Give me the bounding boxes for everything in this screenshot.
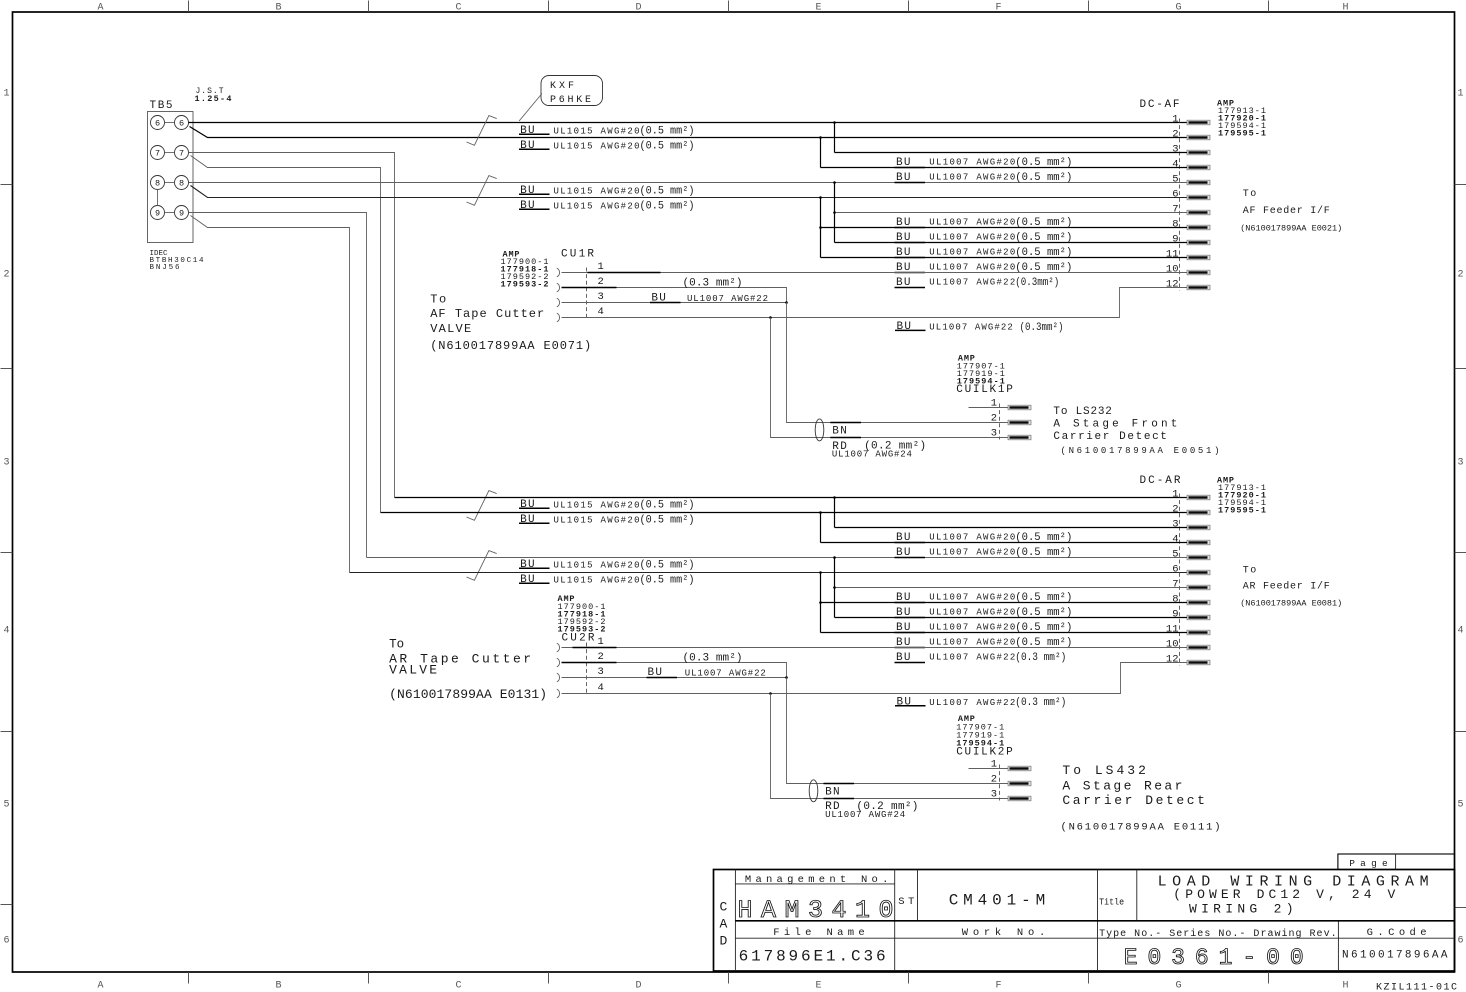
svg-text:(0.5 mm²): (0.5 mm²) <box>1015 532 1072 544</box>
junction vertical 820 DC-AR pins6-8-11 <box>820 573 822 633</box>
junction vertical 834 pins5-7-9 <box>834 183 836 243</box>
title block outline <box>714 870 1455 972</box>
svg-text:CU1R: CU1R <box>561 249 594 261</box>
svg-text:UL1007 AWG#22: UL1007 AWG#22 <box>929 278 1015 288</box>
svg-text:DC-AR: DC-AR <box>1140 475 1181 487</box>
Page box <box>1338 854 1455 870</box>
title block Management No. header underline <box>735 883 894 885</box>
svg-text:(0.5 mm²): (0.5 mm²) <box>640 515 695 527</box>
twisted pair ellipse <box>815 419 824 441</box>
svg-text:BNJ56: BNJ56 <box>150 264 180 272</box>
svg-text:G.Code: G.Code <box>1367 927 1427 939</box>
wire CU2R pin2 (0.3mm2) to junction <box>562 663 787 678</box>
svg-text:UL1007 AWG#20: UL1007 AWG#20 <box>929 623 1015 633</box>
svg-text:N610017896AA: N610017896AA <box>1342 949 1448 961</box>
svg-text:(0.3 mm²): (0.3 mm²) <box>683 278 743 290</box>
svg-text:UL1015 AWG#20: UL1015 AWG#20 <box>554 560 640 570</box>
wire left drop to DC-AR pin5 <box>367 557 1188 559</box>
svg-text:2: 2 <box>1172 129 1178 141</box>
cable twist symbol pair 4 <box>467 551 497 581</box>
connector CU1R pin 3 contact arc <box>557 298 560 307</box>
svg-text:7: 7 <box>155 149 160 159</box>
svg-text:Work No.: Work No. <box>962 927 1046 939</box>
svg-text:1: 1 <box>598 636 604 648</box>
connector CU1R dashed housing line <box>586 268 588 320</box>
svg-text:2: 2 <box>4 270 10 281</box>
svg-text:BN: BN <box>825 786 840 798</box>
svg-text:3: 3 <box>991 428 997 440</box>
svg-text:AR Feeder I/F: AR Feeder I/F <box>1243 581 1330 593</box>
TB5 terminal 8 pair link wire <box>165 182 175 184</box>
svg-text:(0.5 mm²): (0.5 mm²) <box>640 141 695 153</box>
TB5 terminal 7 right circle <box>175 146 189 160</box>
svg-text:WIRING 2): WIRING 2) <box>1189 901 1294 916</box>
svg-text:UL1015 AWG#20: UL1015 AWG#20 <box>554 515 640 525</box>
junction dot CU2R pin3 <box>785 676 788 679</box>
svg-text:2: 2 <box>991 413 997 425</box>
svg-text:UL1007 AWG#22: UL1007 AWG#22 <box>929 653 1015 663</box>
svg-text:BU: BU <box>520 185 535 197</box>
connector DC-AF pin 10 crimp terminal <box>1187 270 1210 275</box>
svg-text:BU: BU <box>520 559 535 571</box>
connector DC-AR pin 5 crimp terminal <box>1187 555 1210 560</box>
wire CU1R pin4 to DC-AF pin12 <box>562 288 1188 318</box>
svg-text:12: 12 <box>1166 279 1179 291</box>
svg-text:7: 7 <box>1172 579 1178 591</box>
svg-text:CUILK2P: CUILK2P <box>956 746 1013 758</box>
wire left drop to DC-AR pin6 <box>350 572 1188 574</box>
wire to DC-AF pin11 <box>821 257 1188 259</box>
svg-text:BU: BU <box>520 125 535 137</box>
svg-text:UL1007 AWG#20: UL1007 AWG#20 <box>929 593 1015 603</box>
junction vertical 834 pins1-3 <box>834 123 836 153</box>
svg-text:1: 1 <box>1172 114 1178 126</box>
TB5 link wire between terminals 8 and 9 <box>157 190 159 206</box>
svg-text:7: 7 <box>1172 204 1178 216</box>
connector DC-AF pin 2 crimp terminal <box>1187 135 1210 140</box>
svg-text:(0.5 mm²): (0.5 mm²) <box>640 201 695 213</box>
TB5 terminal 6 right circle <box>175 116 189 130</box>
svg-text:UL1007 AWG#22: UL1007 AWG#22 <box>929 698 1015 708</box>
svg-text:A: A <box>720 917 728 932</box>
svg-text:3: 3 <box>1172 519 1178 531</box>
wire CU2R pin1 ident segment <box>573 647 617 649</box>
wire TB5-8 branch to DC-AF pin6 (BU UL1015) <box>191 186 1188 198</box>
svg-text:To: To <box>430 293 446 307</box>
svg-text:5: 5 <box>1172 549 1178 561</box>
svg-text:Carrier Detect: Carrier Detect <box>1053 431 1167 443</box>
svg-text:(0.5 mm²): (0.5 mm²) <box>1015 217 1072 229</box>
wire TB5-7 branch to DC-AR pin2 via left drop <box>191 156 381 513</box>
svg-text:UL1015 AWG#20: UL1015 AWG#20 <box>554 186 640 196</box>
svg-text:1: 1 <box>991 759 997 771</box>
svg-text:2: 2 <box>991 774 997 786</box>
connector CUILK1P pin 3 crimp terminal <box>1008 435 1031 440</box>
junction vertical 820 pins6-8-11 <box>820 198 822 258</box>
wire CU2R pin3 BU UL1007 AWG#22 <box>562 677 787 679</box>
svg-text:UL1007 AWG#20: UL1007 AWG#20 <box>929 608 1015 618</box>
terminal block TB5 outline <box>148 112 194 243</box>
wire CU1R pin1 to DC-AF pin10 <box>562 272 1188 274</box>
connector DC-AR pin 3 crimp terminal <box>1187 525 1210 530</box>
svg-text:4: 4 <box>1172 534 1178 546</box>
TB5 terminal 9 left circle <box>151 206 165 220</box>
connector CU2R pin 3 contact arc <box>557 673 560 682</box>
svg-text:10: 10 <box>1166 264 1179 276</box>
connector DC-AF pin 12 crimp terminal <box>1187 285 1210 290</box>
connector CUILK2P dashed housing line <box>999 765 1001 801</box>
connector DC-AR pin 8 crimp terminal <box>1187 600 1210 605</box>
svg-text:3: 3 <box>1458 458 1464 469</box>
svg-text:F: F <box>995 981 1001 992</box>
svg-text:3: 3 <box>4 458 10 469</box>
svg-text:6: 6 <box>1458 936 1464 947</box>
twisted pair ellipse lower <box>809 780 818 802</box>
cable tag KXF P6HKE <box>541 76 603 106</box>
TB5 terminal 8 right circle <box>175 176 189 190</box>
svg-text:(0.5 mm²): (0.5 mm²) <box>640 126 695 138</box>
connector DC-AF pin 9 crimp terminal <box>1187 240 1210 245</box>
wire CU1R pin2 ident segment <box>562 287 617 289</box>
svg-text:1: 1 <box>1172 489 1178 501</box>
connector DC-AR pin 12 crimp terminal <box>1187 660 1210 665</box>
connector DC-AR pin 2 crimp terminal <box>1187 510 1210 515</box>
wire CU2R pin2 ident segment <box>562 662 617 664</box>
svg-text:(0.5 mm²): (0.5 mm²) <box>1015 247 1072 259</box>
connector CUILK2P pin 2 crimp terminal <box>1008 781 1031 786</box>
svg-text:3: 3 <box>1172 144 1178 156</box>
TB5 terminal 7 pair link wire <box>165 152 175 154</box>
connector DC-AR pin 6 crimp terminal <box>1187 570 1210 575</box>
svg-text:7: 7 <box>179 149 184 159</box>
svg-text:(0.5 mm²): (0.5 mm²) <box>1015 172 1072 184</box>
svg-text:(0.3 mm²): (0.3 mm²) <box>1015 652 1066 664</box>
wire stub CUILK2P pin1 <box>969 768 1009 770</box>
svg-text:UL1015 AWG#20: UL1015 AWG#20 <box>554 141 640 151</box>
cable twist symbol pair 3 <box>467 491 497 521</box>
connector CU2R dashed housing line <box>586 643 588 695</box>
connector CU2R pin 1 contact arc <box>557 643 560 652</box>
title block vertical divider 894 <box>894 870 896 972</box>
svg-text:BU: BU <box>520 200 535 212</box>
svg-text:H: H <box>1342 3 1348 14</box>
svg-text:(0.5 mm²): (0.5 mm²) <box>1015 547 1072 559</box>
junction vertical 834 DC-AR pins5-7-9 <box>834 558 836 618</box>
svg-text:1.25-4: 1.25-4 <box>195 94 232 104</box>
wire CU1R pin3 BU UL1007 AWG#22 <box>562 302 787 304</box>
svg-text:D: D <box>635 981 641 992</box>
svg-text:E: E <box>815 3 821 14</box>
svg-text:(0.3 mm²): (0.3 mm²) <box>1015 697 1066 709</box>
wire to DC-AR pin7 <box>835 587 1188 589</box>
svg-text:UL1015 AWG#20: UL1015 AWG#20 <box>554 575 640 585</box>
title block Title label divider <box>1136 870 1138 921</box>
connector DC-AR pin 7 crimp terminal <box>1187 585 1210 590</box>
wire to DC-AR pin4 <box>821 542 1188 544</box>
connector DC-AF pin 1 crimp terminal <box>1187 120 1210 125</box>
wire to DC-AR pin9 <box>835 617 1188 619</box>
svg-text:(0.3 mm²): (0.3 mm²) <box>683 653 743 665</box>
connector DC-AF pin 5 crimp terminal <box>1187 180 1210 185</box>
svg-text:F: F <box>995 3 1001 14</box>
connector DC-AF pin 3 crimp terminal <box>1187 150 1210 155</box>
svg-text:12: 12 <box>1166 654 1179 666</box>
svg-text:(0.5 mm²): (0.5 mm²) <box>1015 232 1072 244</box>
svg-text:(0.3mm²): (0.3mm²) <box>1020 322 1064 334</box>
title block G.Code divider <box>1337 921 1339 971</box>
svg-text:UL1015 AWG#20: UL1015 AWG#20 <box>554 500 640 510</box>
svg-text:(0.5 mm²): (0.5 mm²) <box>1015 592 1072 604</box>
connector DC-AF pin 7 crimp terminal <box>1187 210 1210 215</box>
svg-text:(0.5 mm²): (0.5 mm²) <box>640 560 695 572</box>
svg-text:A Stage Rear: A Stage Rear <box>1062 779 1182 794</box>
svg-text:C: C <box>720 900 728 915</box>
svg-text:UL1007 AWG#20: UL1007 AWG#20 <box>929 158 1015 168</box>
svg-text:3: 3 <box>598 291 604 303</box>
svg-text:UL1007 AWG#20: UL1007 AWG#20 <box>929 248 1015 258</box>
svg-text:(N610017899AA E0051): (N610017899AA E0051) <box>1061 446 1220 456</box>
connector CU1R pin 1 contact arc <box>557 268 560 277</box>
junction dots DC-AF area <box>833 121 836 124</box>
svg-text:4: 4 <box>1458 626 1464 637</box>
svg-text:UL1007 AWG#20: UL1007 AWG#20 <box>929 263 1015 273</box>
svg-text:1: 1 <box>991 398 997 410</box>
svg-text:ST: ST <box>898 896 914 908</box>
svg-text:(0.5 mm²): (0.5 mm²) <box>640 500 695 512</box>
Page box divider <box>1395 854 1397 870</box>
wire CU1R pin4 drop to RD <box>771 318 1009 438</box>
connector DC-AR pin 4 crimp terminal <box>1187 540 1210 545</box>
connector DC-AR pin 11 crimp terminal <box>1187 630 1210 635</box>
svg-text:Carrier Detect: Carrier Detect <box>1062 793 1205 808</box>
svg-text:(N610017899AA E0081): (N610017899AA E0081) <box>1240 599 1342 609</box>
svg-text:A: A <box>97 3 103 14</box>
svg-text:9: 9 <box>1172 234 1178 246</box>
wire to DC-AR pin3 <box>835 527 1188 529</box>
wire TB5-9 branch to DC-AR pin6 via left drop <box>191 216 350 573</box>
svg-text:UL1007 AWG#24: UL1007 AWG#24 <box>825 810 905 820</box>
svg-text:TB5: TB5 <box>150 100 173 112</box>
wire TB5-6 branch to DC-AF pin2 (BU UL1015) <box>190 127 1188 138</box>
svg-text:BU: BU <box>520 499 535 511</box>
svg-text:9: 9 <box>179 209 184 219</box>
svg-text:11: 11 <box>1166 249 1179 261</box>
connector CUILK2P pin 1 crimp terminal <box>1008 766 1031 771</box>
cable twist symbol pair 1 <box>467 116 497 146</box>
svg-text:2: 2 <box>1172 504 1178 516</box>
TB5 terminal 9 right circle <box>175 206 189 220</box>
wire left drop to DC-AR pin1 <box>395 497 1188 499</box>
svg-text:6: 6 <box>179 119 184 129</box>
svg-text:(0.5 mm²): (0.5 mm²) <box>1015 157 1072 169</box>
svg-text:(0.5 mm²): (0.5 mm²) <box>1015 262 1072 274</box>
wire TB5-8 to DC-AF pin5 (BU UL1015) <box>189 182 1188 184</box>
wire CU1R pin1 ident segment <box>588 272 661 274</box>
title block row divider 2 <box>735 937 1454 939</box>
svg-text:4: 4 <box>1172 159 1178 171</box>
wire to DC-AF pin3 <box>835 152 1188 154</box>
svg-text:9: 9 <box>1172 609 1178 621</box>
svg-text:(0.5 mm²): (0.5 mm²) <box>1015 637 1072 649</box>
wire CU1R pin2 (0.3mm2) to junction <box>562 288 787 303</box>
wire to DC-AR pin11 <box>821 632 1188 634</box>
title block row divider 1 <box>735 920 1454 922</box>
connector DC-AR pin 10 crimp terminal <box>1187 645 1210 650</box>
svg-text:6: 6 <box>1172 189 1178 201</box>
junction dot CU2R pin4 <box>769 692 772 695</box>
TB5 terminal 7 left circle <box>151 146 165 160</box>
svg-text:BU: BU <box>897 696 912 708</box>
svg-text:UL1007 AWG#20: UL1007 AWG#20 <box>929 173 1015 183</box>
svg-text:D: D <box>635 3 641 14</box>
svg-text:BU: BU <box>520 140 535 152</box>
svg-text:179593-2: 179593-2 <box>501 280 549 290</box>
svg-text:VALVE: VALVE <box>389 662 437 677</box>
svg-text:G: G <box>1175 981 1181 992</box>
svg-text:6: 6 <box>1172 564 1178 576</box>
svg-text:2: 2 <box>598 276 604 288</box>
connector DC-AR pin 1 crimp terminal <box>1187 495 1210 500</box>
svg-text:File Name: File Name <box>773 927 865 939</box>
svg-text:5: 5 <box>1172 174 1178 186</box>
connector CU1R pin 2 contact arc <box>557 283 560 292</box>
wire CU2R pin3 drop to BN <box>787 678 1009 784</box>
svg-text:617896E1.C36: 617896E1.C36 <box>739 947 886 965</box>
wire TB5-7 to DC-AR pin1 via left drop <box>189 153 395 498</box>
svg-text:8: 8 <box>1172 594 1178 606</box>
svg-text:To: To <box>1243 566 1257 577</box>
svg-text:UL1007 AWG#24: UL1007 AWG#24 <box>832 449 912 459</box>
connector CU2R pin 4 contact arc <box>557 689 560 698</box>
frame column ticks top <box>188 1 190 13</box>
svg-text:C: C <box>455 3 461 14</box>
wire stub CUILK1P pin1 <box>969 407 1009 409</box>
junction vertical 820 DC-AR pins2-4 <box>820 513 822 543</box>
wire CU2R pin4 to DC-AR pin12 <box>562 663 1188 694</box>
svg-text:UL1007 AWG#22: UL1007 AWG#22 <box>687 294 768 304</box>
svg-text:To: To <box>1243 189 1257 200</box>
frame row ticks left <box>1 184 13 186</box>
svg-text:UL1015 AWG#20: UL1015 AWG#20 <box>554 201 640 211</box>
connector CUILK1P pin 2 crimp terminal <box>1008 420 1031 425</box>
TB5 terminal 8 left circle <box>151 176 165 190</box>
svg-text:B: B <box>275 3 281 14</box>
wire left drop to DC-AR pin2 <box>381 512 1188 514</box>
connector DC-AF pin 8 crimp terminal <box>1187 225 1210 230</box>
svg-text:DC-AF: DC-AF <box>1140 99 1180 111</box>
svg-text:E0361-00: E0361-00 <box>1124 945 1304 971</box>
connector DC-AF pin 4 crimp terminal <box>1187 165 1210 170</box>
connector CU2R pin 2 contact arc <box>557 658 560 667</box>
svg-text:179595-1: 179595-1 <box>1218 506 1266 516</box>
svg-text:3: 3 <box>991 789 997 801</box>
svg-text:D: D <box>720 934 728 949</box>
junction dot CU1R pin4 <box>769 316 772 319</box>
svg-text:E: E <box>815 981 821 992</box>
svg-text:To LS432: To LS432 <box>1062 763 1146 778</box>
svg-text:Page: Page <box>1349 858 1388 869</box>
svg-text:UL1007 AWG#20: UL1007 AWG#20 <box>929 638 1015 648</box>
connector DC-AR pin 9 crimp terminal <box>1187 615 1210 620</box>
svg-text:BU: BU <box>520 574 535 586</box>
svg-text:A Stage Front: A Stage Front <box>1053 419 1177 431</box>
svg-text:C: C <box>455 981 461 992</box>
svg-text:1: 1 <box>598 261 604 273</box>
svg-text:3: 3 <box>598 666 604 678</box>
svg-text:UL1007 AWG#20: UL1007 AWG#20 <box>929 233 1015 243</box>
title block CAD column divider <box>734 870 736 972</box>
svg-text:1: 1 <box>1458 89 1464 100</box>
svg-text:2: 2 <box>1458 270 1464 281</box>
svg-text:8: 8 <box>179 179 184 189</box>
svg-text:4: 4 <box>598 682 604 694</box>
wire to DC-AF pin4 <box>821 167 1188 169</box>
svg-text:(0.5 mm²): (0.5 mm²) <box>640 575 695 587</box>
svg-text:UL1007 AWG#22: UL1007 AWG#22 <box>929 323 1019 333</box>
svg-text:6: 6 <box>155 119 160 129</box>
TB5 terminal 6 pair link wire <box>165 122 175 124</box>
svg-text:(N610017899AA E0131): (N610017899AA E0131) <box>389 687 547 702</box>
TB5 terminal 9 pair link wire <box>165 212 175 214</box>
svg-text:G: G <box>1175 3 1181 14</box>
junction vertical 820 pins2-4 <box>820 138 822 168</box>
svg-text:(0.5 mm²): (0.5 mm²) <box>640 186 695 198</box>
svg-text:6: 6 <box>4 936 10 947</box>
svg-text:(0.5 mm²): (0.5 mm²) <box>1015 607 1072 619</box>
svg-text:9: 9 <box>155 209 160 219</box>
svg-text:BN: BN <box>832 426 847 438</box>
svg-text:(N610017899AA E0111): (N610017899AA E0111) <box>1061 822 1221 834</box>
wire TB5-9 to DC-AR pin5 via left drop <box>189 213 367 558</box>
svg-text:B: B <box>275 981 281 992</box>
svg-text:BU: BU <box>897 321 912 333</box>
svg-text:11: 11 <box>1166 624 1179 636</box>
svg-text:AF Feeder I/F: AF Feeder I/F <box>1243 205 1330 217</box>
svg-text:UL1007 AWG#20: UL1007 AWG#20 <box>929 548 1015 558</box>
svg-text:(0.3mm²): (0.3mm²) <box>1015 277 1059 289</box>
svg-text:8: 8 <box>1172 219 1178 231</box>
frame column ticks bottom <box>188 972 190 984</box>
svg-text:AF Tape Cutter: AF Tape Cutter <box>430 307 544 321</box>
title block vertical divider 1097 <box>1097 870 1099 972</box>
wire to DC-AR pin8 <box>821 602 1188 604</box>
svg-text:4: 4 <box>598 306 604 318</box>
svg-text:1: 1 <box>4 89 10 100</box>
svg-text:(N610017899AA E0021): (N610017899AA E0021) <box>1240 224 1342 234</box>
svg-text:UL1007 AWG#20: UL1007 AWG#20 <box>929 218 1015 228</box>
svg-text:(0.5 mm²): (0.5 mm²) <box>1015 622 1072 634</box>
wire CU2R pin4 drop to RD <box>771 694 1009 799</box>
svg-text:To LS232: To LS232 <box>1053 406 1112 418</box>
svg-text:Type No.- Series No.- Drawing: Type No.- Series No.- Drawing Rev. <box>1099 928 1337 940</box>
wire CU2R pin1 to DC-AR pin10 <box>562 647 1188 649</box>
connector DC-AF pin 6 crimp terminal <box>1187 195 1210 200</box>
svg-text:VALVE: VALVE <box>430 322 471 336</box>
junction dots DC-AR area <box>833 496 836 499</box>
connector DC-AR dashed housing line <box>1179 494 1181 666</box>
wire to DC-AF pin8 <box>821 227 1188 229</box>
svg-text:P6HKE: P6HKE <box>550 95 591 106</box>
svg-text:To: To <box>389 637 404 652</box>
svg-text:BU: BU <box>520 514 535 526</box>
frame row ticks right <box>1455 184 1466 186</box>
wire to DC-AF pin7 <box>835 212 1188 214</box>
svg-text:KZIL111-01C: KZIL111-01C <box>1376 982 1457 992</box>
svg-text:10: 10 <box>1166 639 1179 651</box>
TB5 terminal 6 left circle <box>151 116 165 130</box>
svg-text:UL1007 AWG#20: UL1007 AWG#20 <box>929 533 1015 543</box>
tag leader line <box>519 94 542 122</box>
